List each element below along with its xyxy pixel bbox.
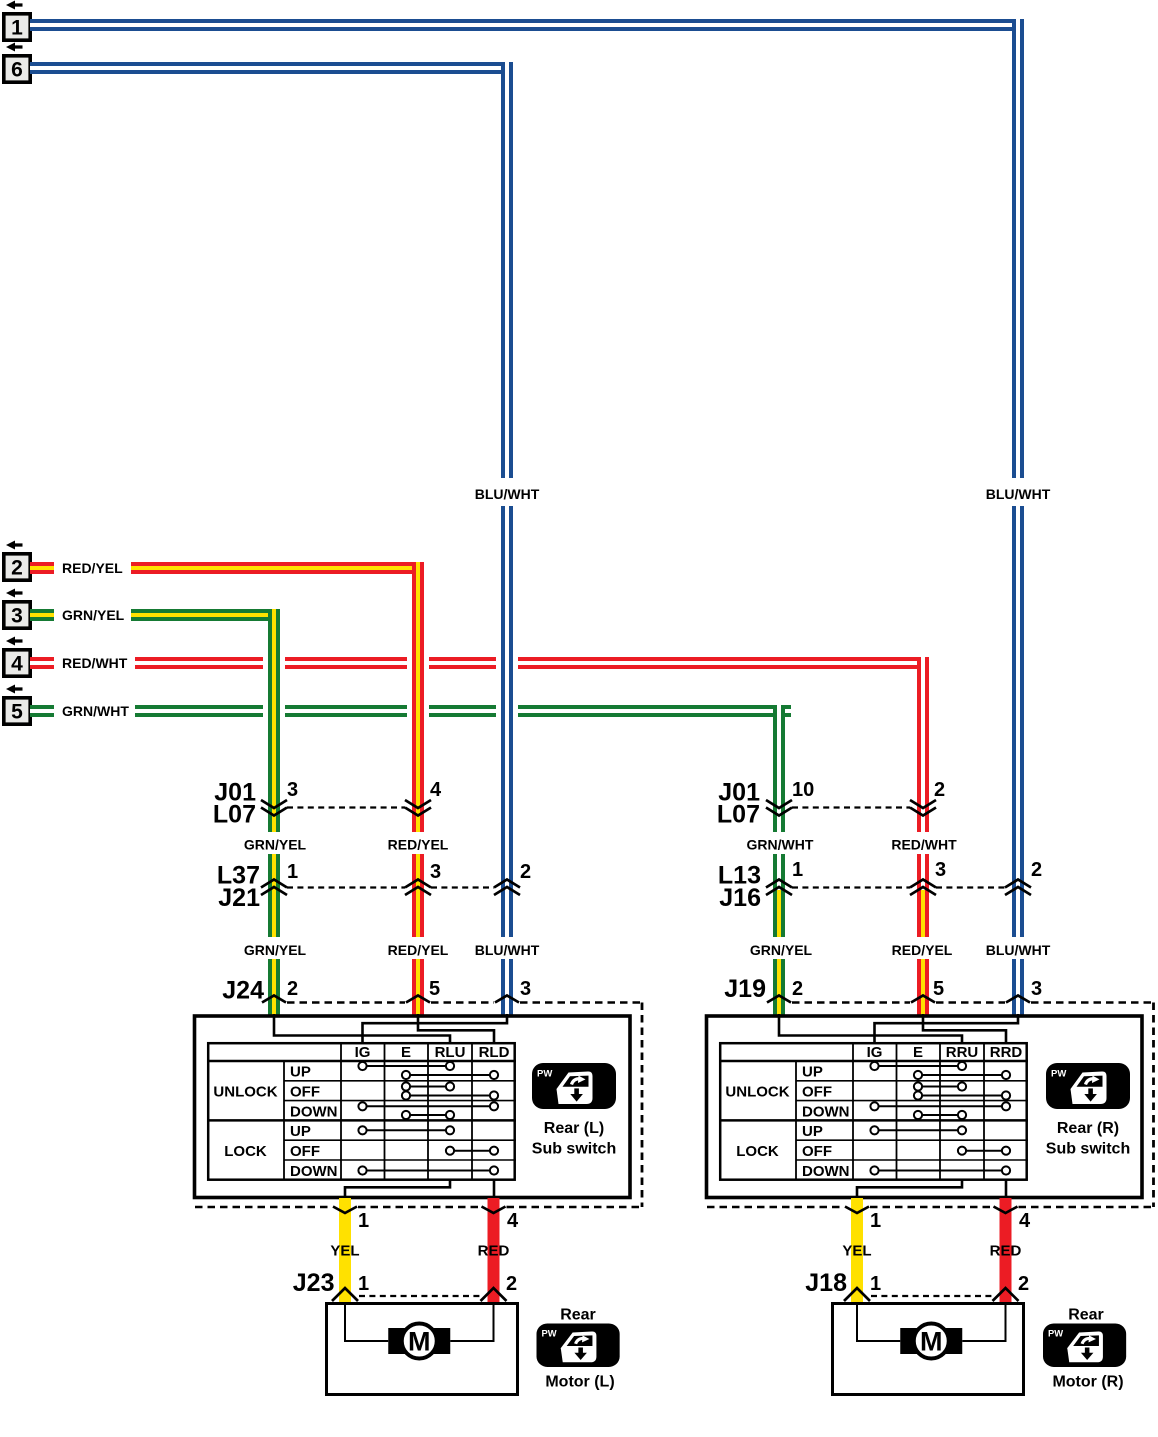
- wire RLD to motor red: [493, 1180, 496, 1198]
- svg-text:GRN/YEL: GRN/YEL: [750, 942, 813, 958]
- svg-text:3: 3: [520, 978, 531, 1000]
- svg-text:J18: J18: [805, 1269, 847, 1297]
- connector L37/J21 left: [217, 861, 531, 912]
- svg-text:UNLOCK: UNLOCK: [725, 1084, 789, 1101]
- contacts L lock off: [446, 1147, 498, 1155]
- connector chevrons L box exit: [333, 1207, 506, 1214]
- svg-text:RED/WHT: RED/WHT: [62, 655, 128, 671]
- wire BLU to IG inside box: [363, 1014, 508, 1043]
- svg-text:E: E: [913, 1044, 923, 1061]
- dashed box R sub switch: [707, 996, 1154, 1208]
- wire label GRN/YEL 2: [244, 942, 307, 958]
- svg-text:RED/YEL: RED/YEL: [62, 560, 123, 576]
- svg-text:LOCK: LOCK: [224, 1143, 267, 1160]
- svg-text:BLU/WHT: BLU/WHT: [986, 486, 1051, 502]
- wire RED/YEL vertical left: [409, 562, 427, 1017]
- wire RRU to motor yellow: [857, 1180, 962, 1198]
- wire label RED/WHT right: [891, 837, 957, 853]
- svg-text:E: E: [401, 1044, 411, 1061]
- off-page connector 5: [4, 685, 30, 725]
- svg-text:3: 3: [287, 779, 298, 801]
- svg-text:BLU/WHT: BLU/WHT: [475, 486, 540, 502]
- rear L sub switch box: [195, 1016, 631, 1198]
- wire RED/YEL from connector 2: [30, 559, 424, 577]
- contacts L lock down: [358, 1166, 498, 1174]
- svg-text:5: 5: [11, 701, 23, 724]
- contacts L unlock down: [358, 1102, 498, 1119]
- svg-text:YEL: YEL: [330, 1243, 359, 1260]
- wire label GRN/YEL: [244, 837, 307, 853]
- pins 1,4 L box exit: [358, 1210, 519, 1232]
- contacts L unlock off: [402, 1082, 498, 1099]
- wire label RED/YEL: [388, 837, 449, 853]
- svg-text:RED/WHT: RED/WHT: [891, 837, 957, 853]
- contacts R lock off: [958, 1147, 1010, 1155]
- wire labels YEL RED L motor: [330, 1243, 509, 1260]
- label Rear (L) Sub switch: [532, 1120, 616, 1158]
- connector J18: [805, 1269, 1029, 1301]
- svg-text:1: 1: [11, 17, 23, 40]
- svg-text:DOWN: DOWN: [290, 1163, 338, 1180]
- svg-text:DOWN: DOWN: [290, 1103, 338, 1120]
- contacts L lock up: [358, 1126, 454, 1134]
- svg-text:J21: J21: [218, 884, 260, 912]
- connector J01/L07 left: [213, 779, 442, 829]
- wire BLU/WHT from connector 1: [30, 19, 1024, 31]
- svg-text:4: 4: [1019, 1210, 1031, 1232]
- wire RED/WHT to RED/YEL vertical right: [914, 657, 932, 1017]
- svg-text:3: 3: [11, 605, 23, 628]
- wire labels YEL RED R motor: [842, 1243, 1021, 1260]
- off-page connector 1: [4, 1, 30, 41]
- svg-text:2: 2: [520, 861, 531, 883]
- svg-text:RED: RED: [990, 1243, 1022, 1260]
- label Rear Motor (R): [1052, 1307, 1123, 1391]
- svg-text:2: 2: [1031, 859, 1042, 881]
- svg-text:4: 4: [507, 1210, 519, 1232]
- dashed box L sub switch: [195, 996, 642, 1208]
- svg-text:GRN/WHT: GRN/WHT: [62, 703, 129, 719]
- off-page connector 6: [4, 43, 30, 83]
- switch contact table R: [719, 1043, 1028, 1180]
- svg-text:Motor (R): Motor (R): [1052, 1374, 1123, 1391]
- svg-text:BLU/WHT: BLU/WHT: [986, 942, 1051, 958]
- wire RED to motor L: [488, 1198, 500, 1302]
- wire RED to motor R: [1000, 1198, 1012, 1302]
- wire BLU to IG inside box: [875, 1014, 1019, 1043]
- connector J19 right: [724, 975, 1042, 1003]
- svg-text:1: 1: [870, 1273, 881, 1295]
- svg-text:RED: RED: [478, 1243, 510, 1260]
- connector J24 left: [222, 977, 531, 1005]
- svg-text:Rear: Rear: [1068, 1307, 1104, 1324]
- svg-text:GRN/WHT: GRN/WHT: [747, 837, 814, 853]
- off-page connector 2: [4, 541, 30, 581]
- wire GRN/YEL from connector 3: [30, 606, 280, 624]
- svg-text:RED/YEL: RED/YEL: [892, 942, 953, 958]
- svg-text:4: 4: [11, 653, 23, 676]
- power window icon R sub switch: [1046, 1063, 1130, 1109]
- contacts R unlock down: [870, 1102, 1010, 1119]
- svg-text:BLU/WHT: BLU/WHT: [475, 942, 540, 958]
- svg-text:GRN/YEL: GRN/YEL: [62, 607, 125, 623]
- svg-text:OFF: OFF: [290, 1143, 320, 1160]
- svg-text:UP: UP: [802, 1064, 823, 1081]
- off-page connector 4: [4, 637, 30, 677]
- wire label RED/YEL right: [892, 942, 953, 958]
- svg-text:2: 2: [934, 779, 945, 801]
- wire RED to RLD inside box: [418, 1014, 494, 1043]
- svg-text:GRN/YEL: GRN/YEL: [244, 942, 307, 958]
- wire label BLU/WHT 2: [475, 942, 540, 958]
- svg-text:2: 2: [506, 1273, 517, 1295]
- svg-text:2: 2: [1018, 1273, 1029, 1295]
- svg-text:1: 1: [870, 1210, 881, 1232]
- svg-text:4: 4: [430, 779, 442, 801]
- svg-text:3: 3: [430, 861, 441, 883]
- svg-text:Sub switch: Sub switch: [532, 1141, 616, 1158]
- motor L box: [327, 1304, 518, 1395]
- contacts L unlock up: [358, 1062, 498, 1079]
- wire BLU/WHT from connector 6: [30, 62, 513, 74]
- svg-text:J23: J23: [293, 1269, 335, 1297]
- wire RED/WHT from connector 4: [30, 654, 929, 672]
- contacts R lock up: [870, 1126, 966, 1134]
- svg-text:1: 1: [287, 861, 298, 883]
- switch contact table L: [207, 1043, 516, 1180]
- wire BLU/WHT vertical right: [986, 19, 1051, 1017]
- svg-text:UP: UP: [290, 1064, 311, 1081]
- contacts R unlock off: [914, 1082, 1010, 1099]
- wire GRN/WHT from connector 5: [30, 702, 791, 720]
- wire label BLU/WHT right: [986, 942, 1051, 958]
- wire RRD to motor red: [1005, 1180, 1008, 1198]
- svg-text:10: 10: [792, 779, 814, 801]
- svg-text:RRD: RRD: [990, 1044, 1023, 1061]
- svg-text:1: 1: [358, 1273, 369, 1295]
- svg-text:DOWN: DOWN: [802, 1103, 850, 1120]
- motor R symbol M: [900, 1324, 962, 1359]
- svg-text:6: 6: [11, 59, 23, 82]
- svg-text:UP: UP: [802, 1123, 823, 1140]
- svg-text:Rear (R): Rear (R): [1057, 1120, 1119, 1137]
- svg-text:3: 3: [1031, 978, 1042, 1000]
- wire RLU to motor yellow: [345, 1180, 450, 1198]
- svg-text:L07: L07: [717, 801, 760, 829]
- contacts R lock down: [870, 1166, 1010, 1174]
- svg-text:5: 5: [933, 978, 944, 1000]
- svg-text:2: 2: [287, 978, 298, 1000]
- wire YEL to motor R: [851, 1198, 863, 1302]
- wire GRN to RRU inside box: [779, 1014, 962, 1043]
- wire label GRN/WHT right: [747, 837, 814, 853]
- motor L leads: [345, 1302, 494, 1341]
- svg-text:Rear: Rear: [560, 1307, 596, 1324]
- svg-text:2: 2: [11, 557, 23, 580]
- svg-text:RLU: RLU: [435, 1044, 466, 1061]
- svg-text:5: 5: [429, 978, 440, 1000]
- svg-text:Sub switch: Sub switch: [1046, 1141, 1130, 1158]
- svg-text:RED/YEL: RED/YEL: [388, 942, 449, 958]
- wire GRN/YEL vertical left: [265, 609, 283, 1017]
- off-page connector 3: [4, 589, 30, 629]
- svg-text:OFF: OFF: [290, 1084, 320, 1101]
- svg-text:2: 2: [792, 978, 803, 1000]
- wire YEL to motor L: [339, 1198, 351, 1302]
- svg-text:J19: J19: [724, 975, 766, 1003]
- svg-text:RLD: RLD: [479, 1044, 510, 1061]
- pins 1,4 R box exit: [870, 1210, 1031, 1232]
- connector J01/L07 right: [717, 779, 945, 829]
- label Rear Motor (L): [545, 1307, 614, 1391]
- svg-text:1: 1: [358, 1210, 369, 1232]
- svg-text:RRU: RRU: [946, 1044, 979, 1061]
- svg-text:M: M: [920, 1327, 943, 1357]
- svg-text:IG: IG: [355, 1044, 371, 1061]
- svg-text:YEL: YEL: [842, 1243, 871, 1260]
- svg-text:OFF: OFF: [802, 1084, 832, 1101]
- svg-text:Motor (L): Motor (L): [545, 1374, 614, 1391]
- svg-text:RED/YEL: RED/YEL: [388, 837, 449, 853]
- connector L13/J16 right: [718, 859, 1042, 912]
- wire label RED/YEL 2: [388, 942, 449, 958]
- svg-text:1: 1: [792, 859, 803, 881]
- contacts R unlock up: [870, 1062, 1010, 1079]
- svg-text:IG: IG: [867, 1044, 883, 1061]
- motor R box: [833, 1304, 1024, 1395]
- power window icon motor L: [537, 1324, 620, 1367]
- svg-text:UNLOCK: UNLOCK: [213, 1084, 277, 1101]
- svg-text:LOCK: LOCK: [736, 1143, 779, 1160]
- svg-text:Rear (L): Rear (L): [544, 1120, 604, 1137]
- svg-text:M: M: [408, 1327, 431, 1357]
- power window icon motor R: [1043, 1324, 1126, 1367]
- svg-text:J24: J24: [222, 977, 264, 1005]
- wire BLU/WHT vertical left: [475, 62, 540, 1017]
- motor R leads: [857, 1302, 1006, 1341]
- wire GRN/WHT to GRN/YEL vertical right: [770, 705, 788, 1017]
- svg-text:J16: J16: [719, 884, 761, 912]
- rear R sub switch box: [707, 1016, 1143, 1198]
- svg-text:GRN/YEL: GRN/YEL: [244, 837, 307, 853]
- connector chevrons R box exit: [845, 1207, 1018, 1214]
- wire RED to RRD inside box: [923, 1014, 1006, 1043]
- label Rear (R) Sub switch: [1046, 1120, 1130, 1158]
- svg-text:L07: L07: [213, 801, 256, 829]
- power window icon L sub switch: [532, 1063, 616, 1109]
- svg-text:UP: UP: [290, 1123, 311, 1140]
- connector J23: [293, 1269, 517, 1301]
- motor L symbol M: [388, 1324, 450, 1359]
- svg-text:3: 3: [935, 859, 946, 881]
- svg-text:OFF: OFF: [802, 1143, 832, 1160]
- wire GRN to RLU inside box: [274, 1014, 450, 1043]
- svg-text:DOWN: DOWN: [802, 1163, 850, 1180]
- wire label GRN/YEL right: [750, 942, 813, 958]
